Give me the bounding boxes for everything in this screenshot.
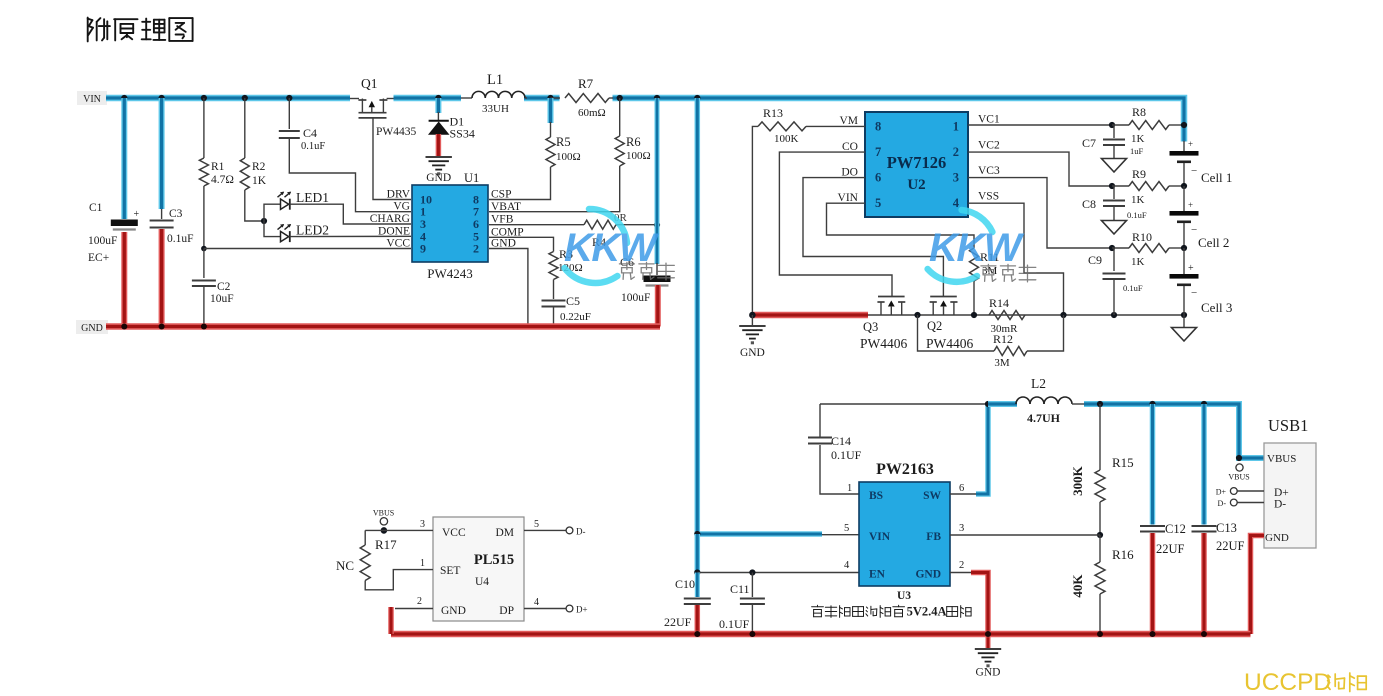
resistor R3 xyxy=(489,237,583,299)
svg-text:9: 9 xyxy=(420,242,426,256)
svg-text:100uF: 100uF xyxy=(88,235,117,247)
svg-text:1: 1 xyxy=(847,483,852,494)
svg-text:5: 5 xyxy=(844,523,849,534)
svg-text:R2: R2 xyxy=(252,161,266,173)
svg-text:C13: C13 xyxy=(1216,521,1237,535)
svg-text:C3: C3 xyxy=(169,208,183,220)
wire VC1 xyxy=(968,122,1115,128)
svg-text:GND: GND xyxy=(81,323,103,334)
wire VBUS to VCC xyxy=(365,509,433,534)
svg-text:6: 6 xyxy=(959,483,964,494)
svg-text:GND: GND xyxy=(441,605,466,617)
svg-text:PW4435: PW4435 xyxy=(376,126,417,138)
battery Cell 1 xyxy=(1170,139,1233,186)
capacitor C14 xyxy=(808,404,862,494)
svg-text:VFB: VFB xyxy=(491,213,514,225)
capacitor C11 xyxy=(719,573,765,635)
svg-text:40K: 40K xyxy=(1070,574,1085,598)
svg-text:3: 3 xyxy=(953,171,959,185)
svg-text:Cell 1: Cell 1 xyxy=(1201,170,1232,185)
watermark UCCPD论坛 xyxy=(1244,669,1366,696)
svg-text:D+: D+ xyxy=(1216,488,1227,497)
svg-text:R7: R7 xyxy=(578,76,594,91)
wire VIN pin to R11 xyxy=(827,203,975,248)
watermark KKW left xyxy=(564,209,674,283)
pin GND USB xyxy=(1251,532,1289,634)
svg-text:+: + xyxy=(1188,200,1193,210)
svg-text:+: + xyxy=(134,209,140,220)
svg-text:C10: C10 xyxy=(675,577,695,591)
op-amp U3 PW2163 xyxy=(844,461,964,602)
wire 5V output rail xyxy=(1084,401,1265,461)
svg-text:CHARG: CHARG xyxy=(370,213,410,225)
svg-text:1: 1 xyxy=(953,119,959,133)
svg-text:4.7UH: 4.7UH xyxy=(1027,411,1061,425)
svg-text:SW: SW xyxy=(923,490,941,502)
resistor R14 xyxy=(989,296,1025,335)
wire DO to Q2 gate xyxy=(803,178,943,297)
svg-text:100K: 100K xyxy=(774,133,799,145)
svg-text:PW4406: PW4406 xyxy=(926,336,974,351)
wire U4 GND xyxy=(391,596,433,634)
svg-text:−: − xyxy=(1191,287,1197,299)
svg-text:U1: U1 xyxy=(464,171,479,185)
svg-text:LED2: LED2 xyxy=(296,223,329,238)
svg-text:+: + xyxy=(1188,263,1194,274)
svg-text:VBUS: VBUS xyxy=(1228,473,1249,482)
watermark KKW right xyxy=(928,210,1036,282)
capacitor C10 xyxy=(664,573,711,635)
svg-text:0.1uF: 0.1uF xyxy=(301,141,325,152)
svg-text:VC3: VC3 xyxy=(978,165,1000,177)
svg-text:22UF: 22UF xyxy=(1156,542,1185,556)
svg-text:8: 8 xyxy=(875,119,881,133)
diode D1 xyxy=(428,98,475,156)
svg-text:PW4406: PW4406 xyxy=(860,336,908,351)
svg-text:100uF: 100uF xyxy=(621,292,650,304)
svg-text:VCC: VCC xyxy=(442,527,466,539)
svg-text:5: 5 xyxy=(534,519,539,530)
svg-text:D-: D- xyxy=(1274,499,1286,511)
title text 附原理图 xyxy=(88,18,193,42)
svg-text:VC2: VC2 xyxy=(978,139,1000,151)
svg-text:R12: R12 xyxy=(993,332,1013,346)
svg-text:VG: VG xyxy=(393,201,410,213)
svg-text:VM: VM xyxy=(839,115,858,127)
wire VIN rail left xyxy=(106,95,350,102)
svg-text:DM: DM xyxy=(495,527,514,539)
svg-text:CO: CO xyxy=(842,141,858,153)
svg-text:C1: C1 xyxy=(89,202,103,214)
svg-text:Cell 3: Cell 3 xyxy=(1201,300,1232,315)
svg-text:R10: R10 xyxy=(1132,230,1152,244)
svg-text:EN: EN xyxy=(869,569,886,581)
op-amp U4 PL515 xyxy=(433,517,524,621)
svg-text:VCC: VCC xyxy=(386,238,410,250)
svg-text:KKW: KKW xyxy=(929,226,1025,270)
svg-text:D-: D- xyxy=(576,527,586,537)
wire VC3 xyxy=(968,178,1115,251)
wire VIN rail after R7 xyxy=(613,98,1185,142)
svg-text:C2: C2 xyxy=(217,281,231,293)
ground symbol for D1 xyxy=(426,157,452,184)
svg-text:C14: C14 xyxy=(831,434,851,448)
svg-text:GND: GND xyxy=(740,347,765,359)
resistor R6 xyxy=(489,98,651,212)
led LED2 xyxy=(264,221,411,242)
svg-text:Q1: Q1 xyxy=(361,76,378,91)
capacitor C6 xyxy=(620,255,671,327)
svg-text:DP: DP xyxy=(499,605,514,617)
svg-text:2: 2 xyxy=(953,145,959,159)
svg-text:U3: U3 xyxy=(897,590,911,602)
svg-text:C8: C8 xyxy=(1082,197,1096,211)
wire pack negative xyxy=(749,312,868,319)
capacitor C1 xyxy=(88,98,140,327)
svg-text:+: + xyxy=(1188,139,1193,149)
wire VIN feed to U3 xyxy=(694,98,859,537)
resistor R9 xyxy=(1112,167,1187,206)
svg-text:1K: 1K xyxy=(252,175,267,187)
svg-text:VBUS: VBUS xyxy=(373,509,394,518)
svg-text:C9: C9 xyxy=(1088,253,1102,267)
svg-text:0.22uF: 0.22uF xyxy=(560,311,591,323)
svg-text:GND: GND xyxy=(491,238,516,250)
svg-text:3M: 3M xyxy=(994,357,1010,369)
wire BS top xyxy=(820,403,988,405)
svg-text:L1: L1 xyxy=(487,72,503,88)
svg-text:VIN: VIN xyxy=(83,94,101,105)
svg-text:60mΩ: 60mΩ xyxy=(578,107,606,119)
wire GND rail left xyxy=(106,323,660,330)
net label GND xyxy=(76,320,108,334)
op-amp U1 PW4243 xyxy=(370,171,524,281)
svg-text:EC+: EC+ xyxy=(88,252,109,264)
svg-text:1K: 1K xyxy=(1131,256,1145,268)
svg-text:100Ω: 100Ω xyxy=(556,151,581,163)
resistor R15 xyxy=(1070,404,1134,538)
svg-text:Cell 2: Cell 2 xyxy=(1198,235,1229,250)
svg-text:GND: GND xyxy=(976,667,1001,679)
transistor Q2 xyxy=(926,297,974,352)
svg-text:VC1: VC1 xyxy=(978,114,1000,126)
svg-text:0.1UF: 0.1UF xyxy=(831,448,862,462)
svg-text:4.7Ω: 4.7Ω xyxy=(211,174,234,186)
svg-text:R15: R15 xyxy=(1112,455,1134,470)
resistor R12 xyxy=(918,315,1064,369)
resistor R4 xyxy=(489,212,660,249)
svg-text:2: 2 xyxy=(417,596,422,607)
svg-text:R1: R1 xyxy=(211,161,225,173)
resistor R5 xyxy=(489,98,581,200)
svg-text:R16: R16 xyxy=(1112,547,1134,562)
svg-text:1: 1 xyxy=(420,558,425,569)
svg-text:USB1: USB1 xyxy=(1268,416,1308,435)
wire EN node xyxy=(694,534,859,576)
svg-text:2: 2 xyxy=(959,560,964,571)
wire VSS to sense node xyxy=(968,203,1064,315)
capacitor C4 xyxy=(279,98,411,212)
resistor R17 xyxy=(336,530,433,589)
connector USB1 box xyxy=(1264,416,1316,548)
svg-text:L2: L2 xyxy=(1031,376,1046,391)
svg-text:SS34: SS34 xyxy=(450,127,475,141)
svg-text:4: 4 xyxy=(953,196,960,210)
svg-text:GND: GND xyxy=(915,569,941,581)
svg-text:−: − xyxy=(1191,165,1197,177)
capacitor C5 xyxy=(542,294,591,330)
node VIN junction dots xyxy=(121,95,700,101)
ground symbol for cells xyxy=(1172,315,1197,341)
resistor R7 xyxy=(551,76,614,119)
wire GND rail bottom xyxy=(391,631,1251,637)
resistor R16 xyxy=(1070,535,1134,634)
svg-text:100Ω: 100Ω xyxy=(626,150,651,162)
svg-text:−: − xyxy=(1191,224,1197,236)
node GND rail dots xyxy=(121,324,207,330)
svg-text:DRV: DRV xyxy=(387,189,411,201)
capacitor C13 xyxy=(1192,404,1245,634)
pin D- xyxy=(1218,499,1287,511)
wire VBAT node vertical xyxy=(655,98,660,264)
svg-text:PW7126: PW7126 xyxy=(887,153,947,172)
inductor L1 xyxy=(461,72,527,115)
svg-text:SET: SET xyxy=(440,565,460,577)
wire U1 GND to rail xyxy=(489,249,531,330)
svg-text:LED1: LED1 xyxy=(296,190,329,205)
resistor R11 xyxy=(970,248,1000,315)
wire VCC to U1 pin9 xyxy=(204,248,411,250)
battery Cell 2 xyxy=(1170,186,1230,250)
svg-text:0.1uF: 0.1uF xyxy=(167,233,194,245)
svg-text:33UH: 33UH xyxy=(482,103,509,115)
svg-text:R6: R6 xyxy=(626,135,641,149)
ground symbol bottom xyxy=(975,634,1001,679)
svg-text:D-: D- xyxy=(1218,499,1227,508)
svg-text:D+: D+ xyxy=(1274,487,1289,499)
svg-text:GND: GND xyxy=(426,172,451,184)
svg-text:R13: R13 xyxy=(763,106,783,120)
svg-text:5V2.4A: 5V2.4A xyxy=(907,605,947,619)
svg-text:C11: C11 xyxy=(730,582,750,596)
wire SW to L2 xyxy=(950,401,991,494)
svg-text:R9: R9 xyxy=(1132,167,1146,181)
resistor R10 xyxy=(1112,230,1187,268)
svg-text:R8: R8 xyxy=(1132,105,1146,119)
svg-text:C4: C4 xyxy=(303,126,317,140)
ground symbol for C7 xyxy=(1102,159,1127,173)
svg-text:4: 4 xyxy=(844,560,850,571)
resistor R13 xyxy=(752,106,865,315)
svg-text:D+: D+ xyxy=(576,605,588,615)
svg-text:22UF: 22UF xyxy=(664,615,692,629)
capacitor C3 xyxy=(150,98,194,327)
svg-text:CSP: CSP xyxy=(491,189,511,201)
svg-text:0.1uF: 0.1uF xyxy=(1127,210,1147,220)
capacitor C9 xyxy=(1088,248,1143,315)
svg-text:Q2: Q2 xyxy=(927,319,942,333)
svg-text:NC: NC xyxy=(336,558,354,573)
resistor R1 xyxy=(199,98,234,250)
wire cell bottom row xyxy=(868,312,1187,318)
svg-text:GND: GND xyxy=(1265,532,1289,544)
svg-text:FB: FB xyxy=(926,531,941,543)
capacitor C7 xyxy=(1082,125,1144,158)
svg-text:PW2163: PW2163 xyxy=(876,461,934,478)
capacitor C2 xyxy=(192,246,234,327)
svg-text:BS: BS xyxy=(869,490,883,502)
wire VIN rail L1-R7 xyxy=(524,95,560,102)
svg-text:U4: U4 xyxy=(475,576,489,588)
text subtitle 两节锂电池降压5V2.4A电路 xyxy=(812,605,972,619)
svg-text:VIN: VIN xyxy=(838,192,859,204)
svg-text:1K: 1K xyxy=(1131,133,1145,145)
pin DM xyxy=(524,519,586,537)
svg-text:7: 7 xyxy=(875,145,881,159)
svg-text:R17: R17 xyxy=(375,537,397,552)
svg-text:Q3: Q3 xyxy=(863,320,878,334)
svg-text:1K: 1K xyxy=(1131,194,1145,206)
svg-text:VBAT: VBAT xyxy=(491,201,521,213)
led LED1 xyxy=(261,190,411,224)
svg-text:C12: C12 xyxy=(1165,522,1186,536)
capacitor C12 xyxy=(1140,404,1186,634)
svg-text:VBUS: VBUS xyxy=(1267,453,1296,465)
pin VBUS xyxy=(1228,453,1296,482)
ground symbol for C8 xyxy=(1102,221,1127,235)
svg-text:3: 3 xyxy=(420,519,425,530)
resistor R2 xyxy=(240,98,266,221)
svg-text:C5: C5 xyxy=(566,294,580,308)
svg-text:VSS: VSS xyxy=(978,191,999,203)
resistor R8 xyxy=(1112,105,1187,145)
svg-text:DONE: DONE xyxy=(378,225,410,237)
svg-text:10uF: 10uF xyxy=(210,293,234,305)
pin D+ xyxy=(1216,487,1289,499)
op-amp U2 PW7126 xyxy=(838,112,1000,217)
capacitor C8 xyxy=(1082,186,1147,220)
ground symbol for R13 xyxy=(739,315,765,359)
svg-text:6: 6 xyxy=(875,171,881,185)
svg-text:3: 3 xyxy=(959,523,964,534)
svg-text:2: 2 xyxy=(473,242,479,256)
wire VIN rail Q1-L1 xyxy=(394,95,462,102)
svg-text:PL515: PL515 xyxy=(474,552,514,568)
svg-text:DO: DO xyxy=(841,166,858,178)
svg-text:VIN: VIN xyxy=(869,531,891,543)
wire VC2 xyxy=(968,152,1115,189)
transistor Q1 xyxy=(350,76,417,200)
svg-text:PW4243: PW4243 xyxy=(427,266,473,281)
transistor Q3 xyxy=(860,297,908,352)
svg-text:C7: C7 xyxy=(1082,136,1096,150)
wire FB xyxy=(950,534,1100,536)
wire U3 GND to rail xyxy=(950,573,988,635)
svg-text:1uF: 1uF xyxy=(1130,146,1144,156)
svg-text:U2: U2 xyxy=(907,177,925,193)
svg-text:UCCPD: UCCPD xyxy=(1244,669,1331,696)
inductor L2 xyxy=(988,376,1085,425)
wire CO to Q3 gate xyxy=(779,152,892,296)
svg-text:0.1UF: 0.1UF xyxy=(719,617,750,631)
svg-text:22UF: 22UF xyxy=(1216,539,1245,553)
pin DP xyxy=(524,597,588,615)
net label VIN xyxy=(77,91,107,105)
svg-text:300K: 300K xyxy=(1070,465,1085,496)
svg-text:0.1uF: 0.1uF xyxy=(1123,283,1143,293)
svg-text:R14: R14 xyxy=(989,296,1009,310)
svg-text:5: 5 xyxy=(875,196,881,210)
svg-text:R5: R5 xyxy=(556,135,571,149)
battery Cell 3 xyxy=(1170,248,1233,315)
svg-text:COMP: COMP xyxy=(491,226,524,238)
svg-text:4: 4 xyxy=(534,597,539,608)
